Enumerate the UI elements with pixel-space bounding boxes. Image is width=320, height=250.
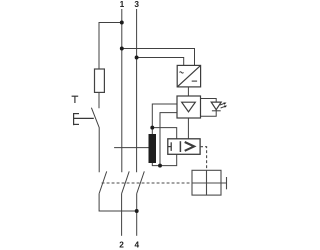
svg-text:1: 1 bbox=[120, 0, 125, 9]
svg-text:3: 3 bbox=[134, 0, 139, 9]
svg-text:2: 2 bbox=[119, 240, 124, 250]
svg-text:4: 4 bbox=[134, 240, 139, 250]
